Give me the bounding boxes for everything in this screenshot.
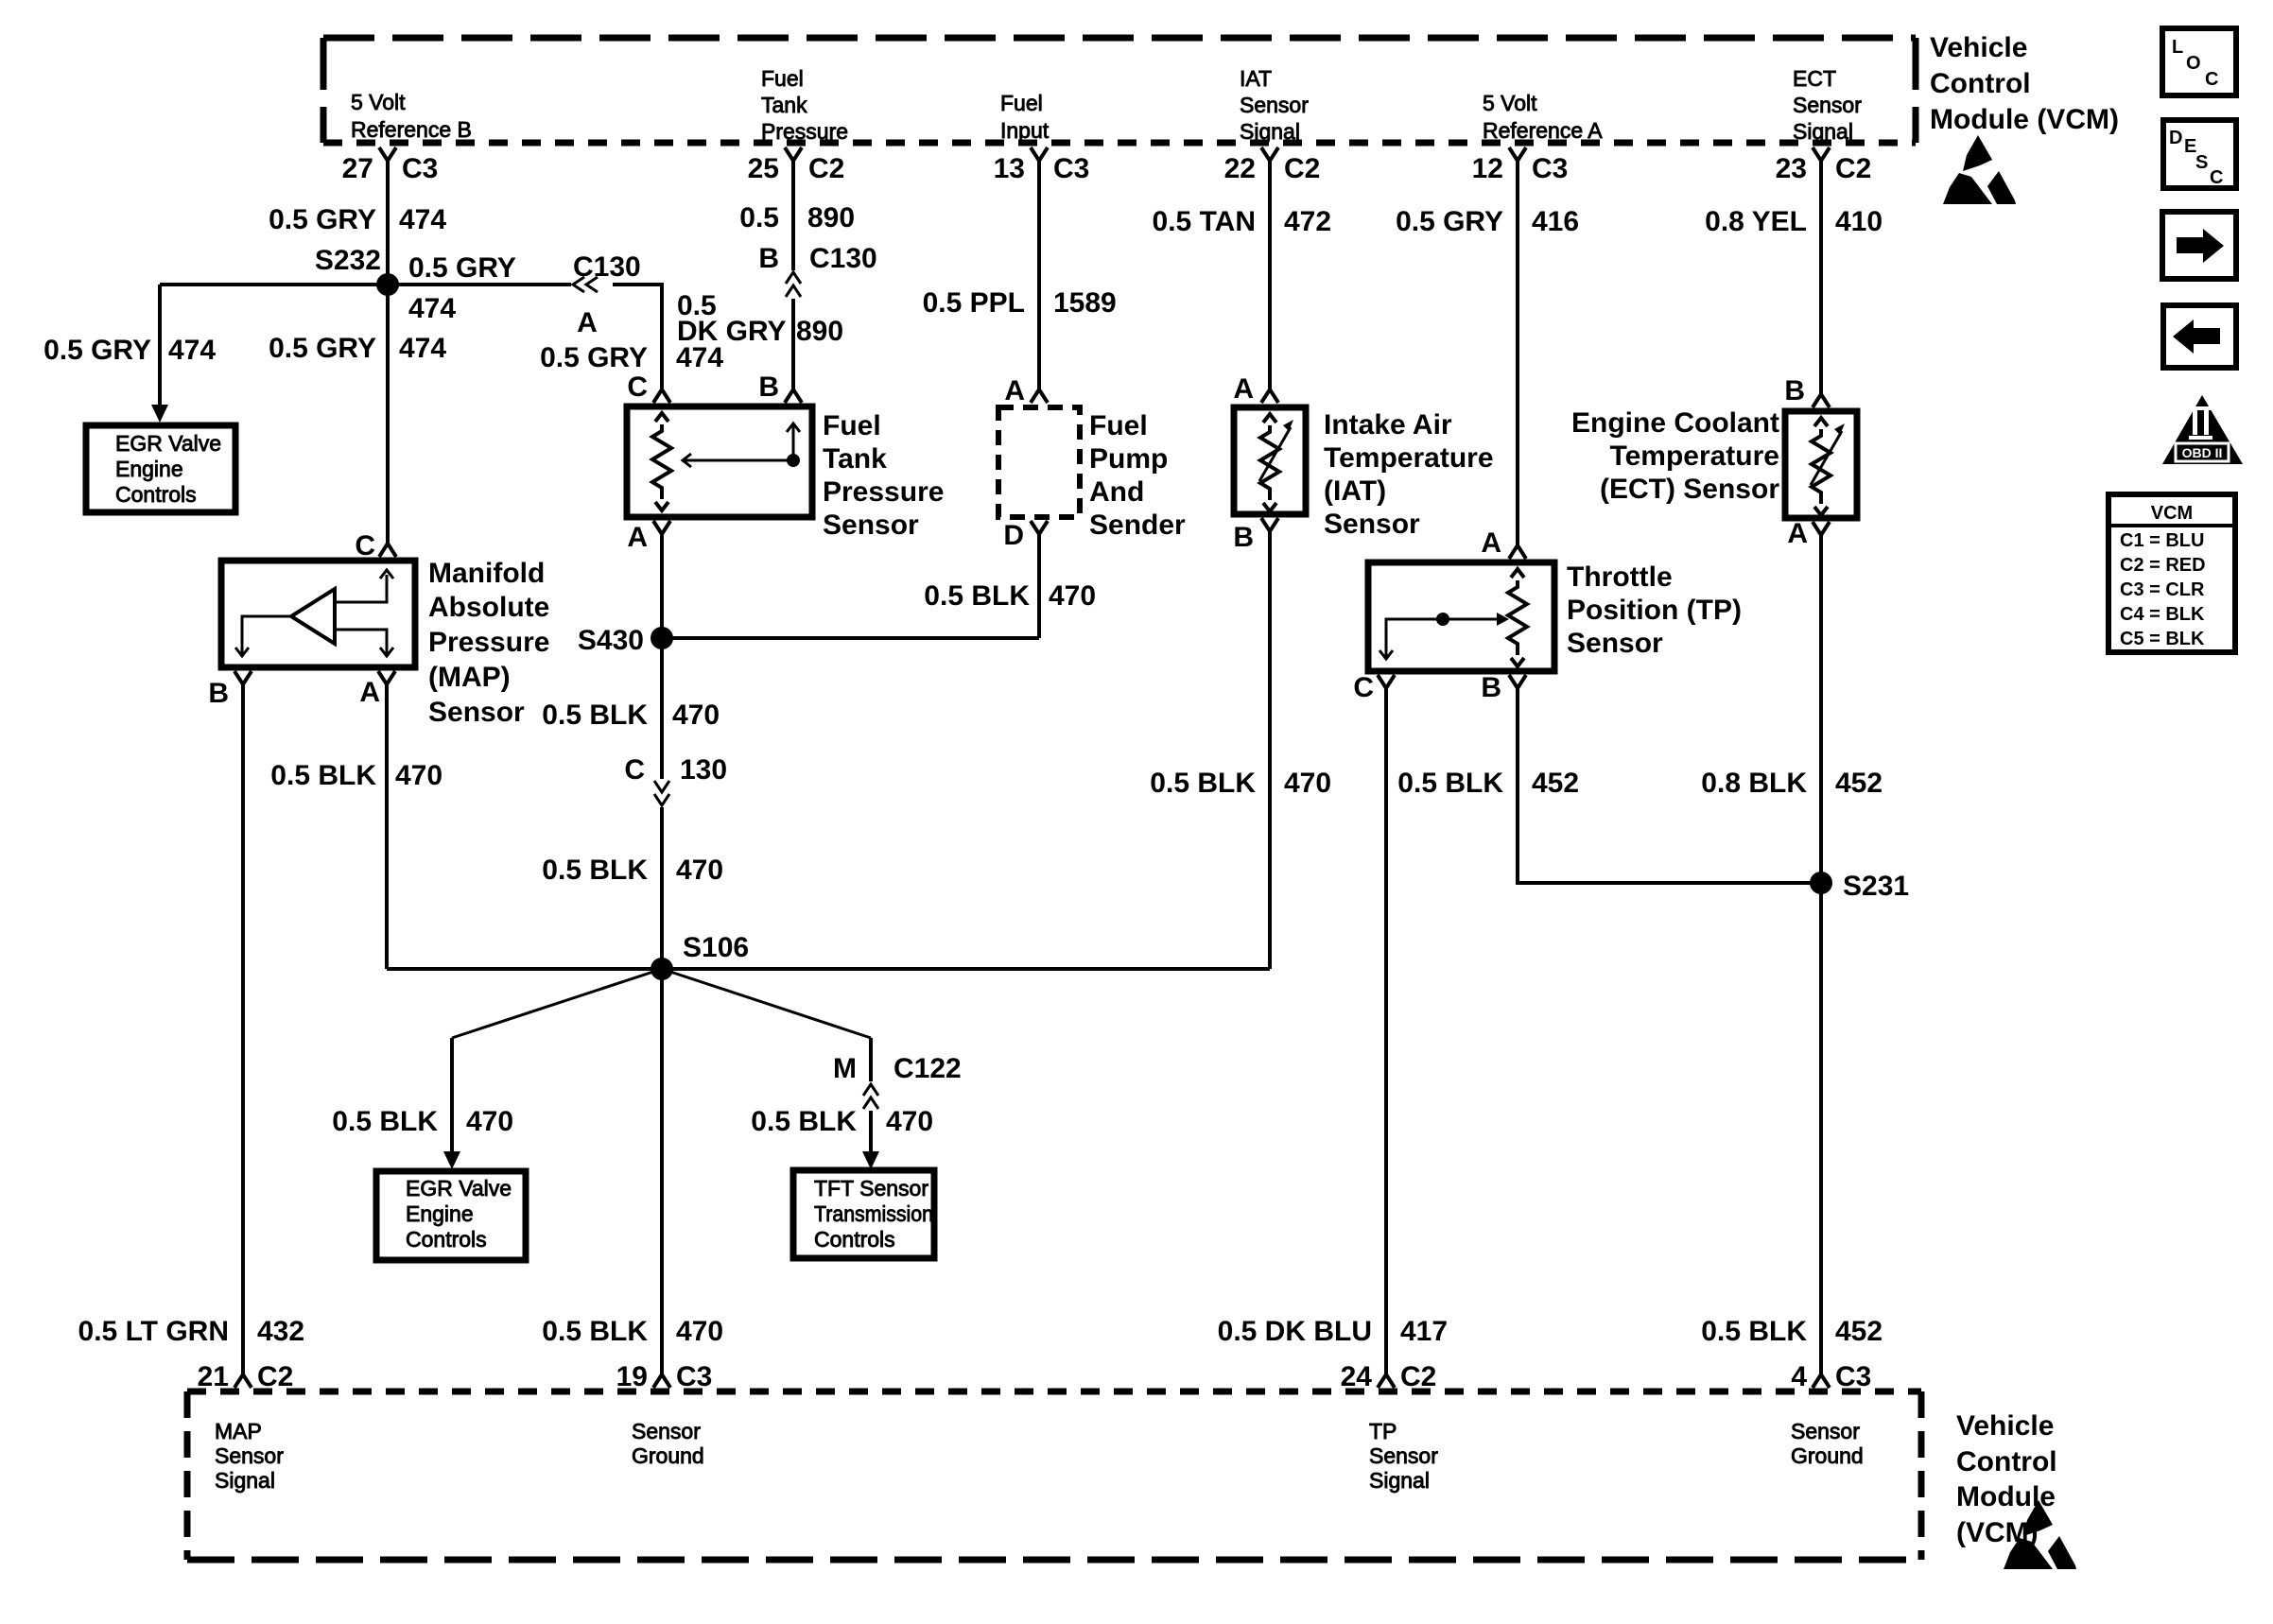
svg-text:Absolute: Absolute [428,592,549,623]
svg-text:M: M [833,1053,857,1084]
wire S232 right to C130 [388,283,571,286]
svg-text:23: 23 [1776,153,1807,184]
pin C of FTP sensor [627,371,670,403]
svg-text:C3: C3 [676,1361,712,1392]
pin 13 C3 connector [994,147,1090,184]
svg-text:1589: 1589 [1053,287,1117,319]
ECT sensor box [1785,411,1857,518]
svg-text:ECT: ECT [1793,66,1836,91]
wire S232 down to MAP C [386,285,390,544]
svg-text:S231: S231 [1843,871,1909,902]
svg-text:21: 21 [198,1361,229,1392]
svg-text:C130: C130 [809,243,877,274]
svg-text:(MAP): (MAP) [428,662,511,693]
svg-text:OBD II: OBD II [2182,445,2223,460]
svg-text:C: C [624,754,645,786]
svg-text:Pressure: Pressure [823,476,944,508]
MAP sensor box [221,561,415,667]
svg-text:474: 474 [399,333,446,364]
svg-text:470: 470 [1049,580,1096,612]
svg-text:470: 470 [886,1106,933,1137]
svg-text:B: B [1784,375,1805,406]
wire TP B down to S231 [1518,688,1821,883]
icon arrow right box [2162,212,2236,279]
svg-text:EGR Valve: EGR Valve [406,1176,512,1201]
svg-text:C: C [355,530,375,561]
label 0.5 LT GRN 432 [78,1316,305,1347]
label 0.5 BLK 452 ground [1701,1316,1883,1347]
svg-text:0.5 GRY: 0.5 GRY [1396,206,1503,237]
pin C of TP sensor [1353,672,1395,703]
svg-text:Sensor: Sensor [1369,1443,1438,1468]
svg-text:130: 130 [680,754,727,786]
svg-text:Sensor: Sensor [428,697,525,728]
node S106 [651,932,749,980]
svg-text:Pressure: Pressure [428,627,549,658]
svg-text:Vehicle: Vehicle [1930,32,2027,63]
svg-text:(ECT) Sensor: (ECT) Sensor [1600,474,1779,505]
svg-text:Engine: Engine [115,457,183,481]
svg-text:S430: S430 [578,625,644,656]
pin 24 C2 connector [1341,1361,1437,1392]
label 5 Volt Reference A [1483,91,1603,143]
label Fuel Tank Pressure Sensor [823,410,944,541]
svg-text:0.5 GRY: 0.5 GRY [269,204,376,235]
svg-text:O: O [2186,53,2201,74]
label 0.5 BLK 470 TFT branch [751,1106,933,1137]
arrow into TFT box [862,1151,879,1169]
svg-text:Pump: Pump [1089,443,1168,475]
wire MAP A down to S106 line [385,684,389,969]
node S232 [315,245,399,296]
svg-text:Pressure: Pressure [761,119,848,144]
svg-text:Controls: Controls [814,1227,895,1252]
svg-text:Control: Control [1930,68,2031,99]
svg-text:0.5 BLK: 0.5 BLK [751,1106,857,1137]
pin 27 C3 connector [342,147,439,184]
svg-text:C2: C2 [808,153,844,184]
svg-text:A: A [1481,527,1501,559]
svg-text:A: A [359,677,380,708]
label 0.5 GRY 474 at FTP C [540,342,723,373]
Fuel Tank Pressure Sensor box [627,406,812,517]
svg-text:Temperature: Temperature [1324,442,1494,474]
pin D of fuel pump [1003,520,1048,551]
svg-text:S: S [2195,152,2208,173]
svg-text:0.8 BLK: 0.8 BLK [1701,768,1807,799]
connector M C122 [833,1053,962,1109]
label 0.5 BLK 470 under IAT [1150,768,1331,799]
svg-text:0.5 TAN: 0.5 TAN [1153,206,1256,237]
svg-text:0.5 BLK: 0.5 BLK [542,1316,648,1347]
pin 21 C2 connector [198,1361,294,1392]
wire MAP B down to 21 C2 [241,684,245,1374]
wire S106 horizontal [387,967,1270,971]
label 0.8 YEL 410 [1705,206,1883,237]
svg-text:B: B [758,371,779,403]
label Vehicle Control Module (VCM) bottom right [1956,1410,2057,1548]
svg-text:Fuel: Fuel [761,66,804,91]
svg-text:C2: C2 [1835,153,1871,184]
wire TP C down to 24 C2 [1384,688,1388,1374]
label ECT Sensor Signal [1793,66,1862,144]
svg-text:416: 416 [1532,206,1579,237]
wire S232 left to EGR branch [160,283,388,286]
label 0.5 GRY 474 below S232 [269,333,446,364]
wire S106 diagonal to EGR branch [452,969,662,1038]
label 5 Volt Reference B [351,90,472,142]
svg-text:C2: C2 [1400,1361,1436,1392]
label Throttle Position (TP) Sensor [1567,561,1742,659]
svg-text:0.5 BLK: 0.5 BLK [1397,768,1503,799]
svg-text:D: D [1003,520,1024,551]
svg-text:(IAT): (IAT) [1324,475,1386,507]
svg-text:B: B [1481,672,1501,703]
connector C130 horizontal [573,251,641,338]
ESD symbol bottom [2004,1500,2076,1569]
svg-text:24: 24 [1341,1361,1373,1392]
svg-text:C3: C3 [1835,1361,1871,1392]
svg-text:890: 890 [807,202,855,233]
label 0.5 BLK 470 under MAP A [270,760,442,791]
label 0.5 GRY 474 left branch [43,335,216,366]
wire 22C2 to IAT A [1268,161,1272,389]
label Sensor Ground right [1791,1419,1864,1468]
svg-text:27: 27 [342,153,373,184]
svg-text:472: 472 [1284,206,1331,237]
svg-text:C3: C3 [402,153,438,184]
EGR Valve Engine Controls box bottom [376,1171,526,1260]
svg-text:0.5 BLK: 0.5 BLK [332,1106,438,1137]
svg-text:470: 470 [1284,768,1331,799]
svg-text:Signal: Signal [1240,119,1300,144]
pin A of MAP sensor [359,671,395,708]
svg-text:5 Volt: 5 Volt [1483,91,1537,115]
svg-text:A: A [1233,373,1254,405]
svg-text:Tank: Tank [823,443,887,475]
icon OBD II triangle [2162,395,2243,464]
label Fuel Pump And Sender [1089,410,1186,541]
icon arrow left box [2163,305,2236,368]
pin B of TP sensor [1481,672,1526,703]
svg-text:A: A [1787,518,1808,549]
svg-text:Sensor: Sensor [215,1443,284,1468]
svg-text:Sensor: Sensor [1324,509,1420,540]
VCM bottom dashed box [187,1391,1921,1560]
svg-text:Engine: Engine [406,1201,474,1226]
wire 25C2 to C130 vertical [791,161,795,270]
pin B of FTP sensor [758,371,802,403]
label Manifold Absolute Pressure (MAP) Sensor [428,558,549,728]
label Intake Air Temperature (IAT) Sensor [1324,409,1494,540]
IAT sensor box [1234,407,1306,514]
node S231 [1810,871,1909,902]
pin 12 C3 connector [1472,147,1569,184]
wire 27C3 to S232 [386,161,390,285]
label 0.5 GRY 474 on S232 line [408,252,516,324]
svg-text:Intake Air: Intake Air [1324,409,1452,441]
connector B C130 vertical [758,243,876,297]
svg-text:Vehicle: Vehicle [1956,1410,2054,1442]
icon DESC box [2163,120,2236,188]
wire S106 diagonal to TFT branch [662,969,871,1038]
wire 13C3 to fuel pump A [1037,161,1041,389]
svg-text:0.5 LT GRN: 0.5 LT GRN [78,1316,229,1347]
svg-text:0.5 BLK: 0.5 BLK [1701,1316,1807,1347]
svg-text:C: C [2205,69,2218,90]
svg-text:19: 19 [616,1361,648,1392]
svg-text:C3: C3 [1532,153,1568,184]
svg-text:And: And [1089,476,1144,508]
svg-text:470: 470 [672,700,720,731]
label Sensor Ground left [632,1419,704,1468]
svg-text:A: A [1004,375,1025,406]
pin A of fuel pump [1004,375,1048,406]
svg-text:0.5 BLK: 0.5 BLK [542,700,648,731]
svg-text:Transmission: Transmission [814,1201,933,1226]
svg-text:C4 = BLK: C4 = BLK [2120,604,2205,625]
svg-text:Signal: Signal [1793,119,1853,144]
pin 22 C2 connector [1224,147,1321,184]
label 0.5 BLK 470 above S106 [542,855,723,886]
svg-text:452: 452 [1835,1316,1883,1347]
svg-text:S232: S232 [315,245,381,276]
svg-text:Ground: Ground [1791,1443,1864,1468]
label Fuel Input [1000,91,1050,143]
svg-text:C: C [1353,672,1374,703]
svg-text:C3: C3 [1053,153,1089,184]
label 0.5 BLK 452 [1397,768,1579,799]
Fuel Pump And Sender dashed box [998,407,1080,517]
svg-text:0.5 GRY: 0.5 GRY [540,342,648,373]
wire 130 to S106 [660,807,664,969]
svg-text:Temperature: Temperature [1609,441,1779,472]
connector C 130 inline [624,754,727,805]
EGR Valve Engine Controls box top left [86,425,235,512]
svg-text:0.5 GRY: 0.5 GRY [408,252,516,284]
Throttle Position sensor box [1368,562,1554,671]
label IAT Sensor Signal [1240,66,1309,144]
svg-text:410: 410 [1835,206,1883,237]
svg-text:0.5 BLK: 0.5 BLK [1150,768,1256,799]
svg-text:C: C [627,371,648,403]
VCM connector color table [2108,494,2235,652]
label 0.5 BLK 470 ground [542,1316,723,1347]
svg-text:TFT Sensor: TFT Sensor [814,1176,928,1201]
pin A of IAT sensor [1233,373,1278,405]
arrow into EGR box [443,1151,460,1169]
svg-text:0.5 DK BLU: 0.5 DK BLU [1218,1316,1372,1347]
label 0.5 DK GRY 890 [677,290,843,347]
svg-text:0.5 PPL: 0.5 PPL [923,287,1025,319]
svg-text:474: 474 [408,293,456,324]
svg-text:Manifold: Manifold [428,558,545,589]
label 0.5 GRY 474 upper [269,204,446,235]
svg-text:Throttle: Throttle [1567,561,1673,593]
svg-text:Sensor: Sensor [1793,93,1862,117]
svg-text:470: 470 [466,1106,513,1137]
pin 25 C2 connector [748,147,845,184]
wire IAT B down to S106 line [1268,531,1272,969]
svg-text:4: 4 [1791,1361,1807,1392]
svg-text:B: B [758,243,779,274]
svg-text:0.5 GRY: 0.5 GRY [43,335,151,366]
svg-text:Reference A: Reference A [1483,118,1603,143]
pin 23 C2 connector [1776,147,1872,184]
label 0.5 TAN 472 [1153,206,1332,237]
svg-text:474: 474 [399,204,446,235]
svg-text:0.5 GRY: 0.5 GRY [269,333,376,364]
label Fuel Tank Pressure [761,66,848,144]
svg-text:B: B [1233,522,1254,553]
svg-text:C2: C2 [1284,153,1320,184]
svg-text:Control: Control [1956,1446,2057,1477]
wire C130 to FTP corner [613,285,662,389]
svg-text:C1 = BLU: C1 = BLU [2120,530,2204,551]
svg-text:Signal: Signal [215,1468,275,1493]
svg-text:A: A [627,522,648,553]
wire S430 down to connector 130 [660,638,664,779]
svg-text:C122: C122 [894,1053,962,1084]
label TP Sensor Signal [1369,1419,1438,1493]
svg-text:432: 432 [257,1316,304,1347]
svg-text:Fuel: Fuel [1000,91,1043,115]
wire 12C3 to TP A [1516,161,1519,545]
svg-text:IAT: IAT [1240,66,1272,91]
icon LOC box [2162,28,2236,95]
svg-text:470: 470 [395,760,442,791]
svg-text:470: 470 [676,855,723,886]
pin B of IAT sensor [1233,518,1278,553]
svg-text:470: 470 [676,1316,723,1347]
svg-text:Sensor: Sensor [1240,93,1309,117]
label 0.5 PPL 1589 [923,287,1117,319]
ESD symbol top [1943,135,2016,204]
svg-text:Position (TP): Position (TP) [1567,595,1742,626]
pin C of MAP sensor [355,530,396,561]
pin A of TP sensor [1481,527,1526,559]
svg-text:L: L [2172,37,2183,58]
svg-text:B: B [208,678,229,709]
svg-text:C2 = RED: C2 = RED [2120,555,2206,576]
svg-text:Sender: Sender [1089,510,1186,541]
pin 19 C3 connector [616,1361,713,1392]
svg-text:0.5: 0.5 [739,202,779,233]
wire C122 to TFT arrow [869,1111,873,1151]
svg-text:Input: Input [1000,118,1050,143]
svg-text:25: 25 [748,153,779,184]
svg-text:Sensor: Sensor [1567,628,1663,659]
label 0.5 BLK 470 EGR branch [332,1106,513,1137]
svg-text:0.5 BLK: 0.5 BLK [270,760,376,791]
svg-text:C: C [2210,167,2223,188]
svg-text:Sensor: Sensor [632,1419,701,1443]
svg-text:0.8 YEL: 0.8 YEL [1705,206,1807,237]
svg-text:EGR Valve: EGR Valve [115,431,221,456]
label 0.5 DK BLU 417 [1218,1316,1448,1347]
label 0.5 GRY 416 [1396,206,1579,237]
pin B of MAP sensor [208,671,252,709]
svg-text:12: 12 [1472,153,1503,184]
svg-text:Reference B: Reference B [351,117,472,142]
svg-text:Sensor: Sensor [1791,1419,1860,1443]
svg-text:C2: C2 [257,1361,293,1392]
pin B of ECT sensor [1784,375,1830,407]
svg-text:S106: S106 [683,932,749,963]
wire 23C2 to ECT B [1819,161,1823,394]
svg-text:C5 = BLK: C5 = BLK [2120,629,2205,649]
pin A of ECT sensor [1787,518,1830,549]
svg-text:474: 474 [676,342,723,373]
svg-text:Module (VCM): Module (VCM) [1930,104,2119,135]
label 0.8 BLK 452 [1701,768,1883,799]
node S430 [578,625,673,656]
svg-text:Tank: Tank [761,93,807,117]
svg-text:D: D [2169,128,2182,148]
svg-text:452: 452 [1835,768,1883,799]
svg-text:Controls: Controls [115,482,197,507]
svg-text:Engine Coolant: Engine Coolant [1571,407,1779,439]
svg-text:Sensor: Sensor [823,510,919,541]
wire S430 horizontal [662,636,1039,640]
svg-text:Signal: Signal [1369,1468,1430,1493]
wire EGR branch down with arrow [151,285,168,423]
label Engine Coolant Temperature (ECT) Sensor [1571,407,1779,505]
pin A of FTP sensor [627,521,670,553]
svg-text:Controls: Controls [406,1227,487,1252]
label 0.5 BLK 470 below S430 [542,700,720,731]
svg-text:A: A [577,307,598,338]
TFT Sensor Transmission Controls box [793,1170,934,1258]
label Vehicle Control Module (VCM) top right [1930,32,2119,135]
svg-text:474: 474 [168,335,216,366]
svg-text:TP: TP [1369,1419,1397,1443]
svg-text:452: 452 [1532,768,1579,799]
pin 4 C3 connector [1791,1361,1871,1392]
svg-text:MAP: MAP [215,1419,262,1443]
svg-text:890: 890 [796,316,843,347]
svg-text:Fuel: Fuel [823,410,881,441]
wire FTP A to S430 [660,534,664,638]
wire ECT A down to 4 C3 [1819,535,1823,1374]
svg-text:13: 13 [994,153,1025,184]
svg-text:Ground: Ground [632,1443,704,1468]
wire fuel pump D down to S430 line [1037,534,1041,638]
label 0.5 890 [739,202,855,233]
svg-text:C3 = CLR: C3 = CLR [2120,579,2205,600]
svg-text:22: 22 [1224,153,1256,184]
svg-text:VCM: VCM [2151,503,2193,524]
svg-text:0.5 BLK: 0.5 BLK [542,855,648,886]
svg-text:417: 417 [1400,1316,1448,1347]
svg-text:0.5 BLK: 0.5 BLK [924,580,1030,612]
wire S106 down to 19 C3 [660,969,664,1374]
svg-text:5 Volt: 5 Volt [351,90,406,114]
VCM top dashed box [323,38,1916,143]
wire C130 to FTP B [791,299,795,389]
svg-text:Fuel: Fuel [1089,410,1148,441]
label MAP Sensor Signal [215,1419,284,1493]
label 0.5 BLK 470 at fuel pump D [924,580,1096,612]
